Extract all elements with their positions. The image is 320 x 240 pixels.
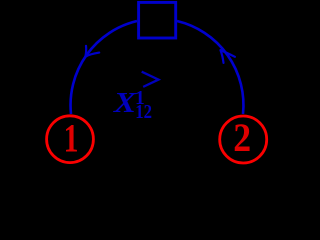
node 2 circle <box>220 116 267 163</box>
node 1 circle <box>47 116 94 163</box>
svg-text:X: X <box>113 86 138 118</box>
svg-text:2: 2 <box>233 116 251 161</box>
wire: right arc from node 2 to square <box>177 21 243 114</box>
vertex square (interaction box) <box>139 2 176 38</box>
greater-than direction mark <box>143 72 159 86</box>
arrowhead on right arc (points toward square) <box>221 50 235 63</box>
arrowhead on left arc (points toward node 1) <box>85 46 99 57</box>
svg-text:1: 1 <box>64 115 79 161</box>
wire: left arc from square to node 1 <box>71 21 137 114</box>
svg-text:12: 12 <box>135 100 152 123</box>
